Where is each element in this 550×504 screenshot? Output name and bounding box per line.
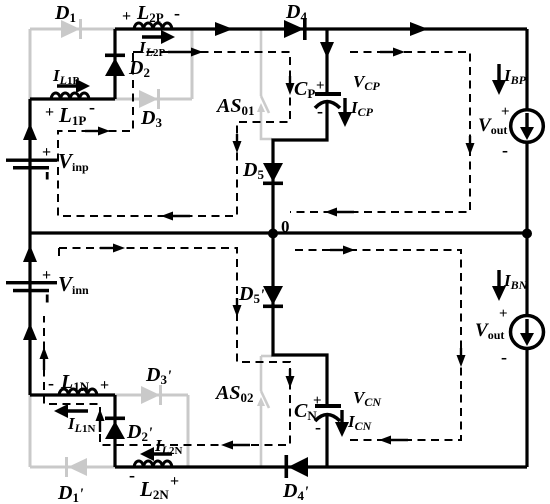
svg-text:D4: D4 bbox=[285, 1, 307, 24]
diode D2' bbox=[105, 417, 125, 440]
wire: D3' gray branch bbox=[115, 394, 188, 397]
svg-text:L2N: L2N bbox=[139, 477, 169, 502]
diode D1' (gray) bbox=[65, 457, 87, 477]
diode D4 bbox=[284, 18, 307, 40]
wire: right rail top bbox=[525, 29, 528, 233]
diode D4' bbox=[285, 455, 309, 478]
diode D5 bbox=[263, 163, 283, 185]
svg-text:Vinn: Vinn bbox=[58, 272, 89, 297]
dash arrow right (y248) bbox=[100, 243, 125, 252]
dash arrow down (x290 bottom) bbox=[285, 369, 294, 388]
svg-text:-: - bbox=[174, 3, 180, 23]
diode D2 bbox=[105, 54, 125, 77]
dash arrow down (x237 bottom) bbox=[232, 298, 241, 317]
node junction dot right bbox=[522, 229, 532, 239]
inductor L2N bbox=[134, 461, 172, 467]
svg-text:D3: D3 bbox=[140, 107, 162, 130]
svg-text:+: + bbox=[122, 8, 131, 25]
svg-text:L1N: L1N bbox=[60, 371, 90, 394]
wire: L1P branch bbox=[30, 97, 115, 100]
wire: left black rail (Vinn) bbox=[28, 232, 31, 395]
inductor L1N bbox=[59, 389, 97, 395]
wire: top-left gray rail (D1 branch) bbox=[30, 28, 115, 31]
svg-text:ICP: ICP bbox=[350, 98, 374, 119]
current source arrow (bottom) bbox=[525, 319, 528, 334]
wire: bottom main rail (black) bbox=[115, 465, 527, 468]
svg-text:-: - bbox=[129, 465, 135, 485]
svg-text:0: 0 bbox=[281, 217, 290, 236]
capacitor CN curved plate bbox=[315, 415, 340, 422]
inductor L2P bbox=[134, 23, 172, 29]
switch AS01 arrowhead (gray) bbox=[257, 103, 265, 112]
svg-text:IL1N: IL1N bbox=[67, 414, 95, 435]
diode D1 (gray) bbox=[61, 19, 82, 39]
dashed loop: top-right output loop bbox=[290, 52, 470, 212]
svg-text:-: - bbox=[501, 347, 507, 367]
svg-text:+: + bbox=[42, 267, 51, 284]
svg-text:+: + bbox=[313, 393, 322, 409]
svg-text:ICN: ICN bbox=[347, 412, 373, 433]
wire: left black rail (Vinp) bbox=[28, 99, 31, 232]
dash arrow up (x100) bbox=[95, 409, 104, 432]
diode D3 (gray) bbox=[139, 89, 160, 109]
svg-text:IL2N: IL2N bbox=[154, 436, 182, 457]
svg-text:D1': D1' bbox=[57, 482, 84, 504]
svg-text:VCP: VCP bbox=[353, 72, 380, 93]
wire: left gray rail segment top bbox=[29, 29, 32, 99]
solid arrow IL2P bbox=[142, 35, 163, 38]
svg-text:D2: D2 bbox=[128, 57, 150, 80]
dash arrow right (y131) bbox=[85, 126, 110, 135]
solid arrow IBP bbox=[497, 64, 500, 82]
dash arrow left (y440) bbox=[379, 435, 408, 444]
svg-text:-: - bbox=[502, 140, 508, 160]
dash arrow down (x290) bbox=[285, 76, 294, 95]
dash arrow left (y216) bbox=[161, 211, 190, 220]
wire: D2' vertical branch bbox=[113, 395, 116, 467]
wire: CN bottom to bottom rail bbox=[325, 413, 328, 467]
svg-text:D2': D2' bbox=[126, 421, 153, 444]
dash arrow left (y212) bbox=[325, 207, 354, 216]
capacitor CN plate bbox=[315, 404, 341, 408]
solid arrow ICP bbox=[343, 98, 346, 114]
dash arrow right (IL2P loop, y52) bbox=[168, 47, 203, 56]
dash arrow down (x470) bbox=[465, 136, 474, 155]
switch AS02 arrowhead (gray) bbox=[257, 397, 265, 406]
svg-text:Vout: Vout bbox=[475, 320, 504, 342]
dash arrow up (x44) bbox=[39, 347, 48, 370]
diode D5' bbox=[263, 286, 283, 308]
svg-text:L2P: L2P bbox=[136, 2, 164, 25]
current source arrow (top) bbox=[525, 113, 528, 128]
dash arrow down (x237 top loop) bbox=[232, 134, 241, 153]
wire: gray vertical from D3' to bottom wire bbox=[187, 395, 190, 467]
svg-text:AS01: AS01 bbox=[215, 95, 254, 118]
wire: D3 gray branch bbox=[115, 98, 192, 101]
arrow up on left rail (top half) bbox=[23, 123, 37, 140]
dash arrow down (x461) bbox=[456, 348, 465, 367]
svg-text:-: - bbox=[48, 373, 54, 393]
wire: top main rail bbox=[115, 27, 527, 30]
wire: left gray rail segment bottom bbox=[29, 395, 32, 467]
svg-text:L1P: L1P bbox=[58, 103, 86, 128]
battery Vinn plates bbox=[6, 281, 57, 303]
arrow down into CP bbox=[320, 42, 334, 58]
arrow on top wire (right of D4) bbox=[410, 22, 428, 36]
arrow up on left rail (below Vinn) bbox=[23, 323, 37, 340]
solid arrow IL1P bbox=[57, 84, 78, 87]
current source circle (bottom Vout) bbox=[511, 316, 544, 349]
svg-text:D5: D5 bbox=[242, 159, 264, 182]
svg-text:+: + bbox=[501, 104, 510, 120]
svg-text:D1: D1 bbox=[54, 2, 76, 25]
battery Vinp plates bbox=[6, 159, 57, 180]
wire: bottom-left gray rail (D1' branch) bbox=[30, 466, 115, 469]
svg-text:D3': D3' bbox=[145, 364, 172, 387]
svg-text:-: - bbox=[317, 101, 323, 121]
svg-text:+: + bbox=[316, 78, 325, 94]
svg-text:D5': D5' bbox=[238, 283, 265, 306]
dashed loop: top-left input loop bbox=[58, 52, 290, 216]
arrow on top wire (left of D4) bbox=[215, 22, 233, 36]
wire: CP top drop from top rail bbox=[325, 29, 328, 95]
svg-text:CP: CP bbox=[294, 78, 315, 101]
svg-text:-: - bbox=[89, 97, 95, 117]
current source circle (top Vout) bbox=[511, 110, 544, 143]
switch AS02 (gray) bbox=[261, 356, 272, 467]
dash arrow left (y445) bbox=[221, 440, 250, 449]
capacitor CP curved plate bbox=[315, 102, 340, 109]
svg-text:D4': D4' bbox=[282, 480, 309, 503]
dash arrow right (y52 right loop) bbox=[380, 47, 405, 56]
svg-text:AS02: AS02 bbox=[214, 382, 253, 405]
capacitor CP plate bbox=[315, 92, 341, 96]
wire: L1N branch bbox=[30, 393, 115, 396]
solid arrow IBN bbox=[497, 270, 500, 288]
svg-text:-: - bbox=[315, 417, 321, 437]
svg-text:IBN: IBN bbox=[503, 271, 529, 292]
svg-text:+: + bbox=[170, 473, 179, 490]
solid arrow IL2N bbox=[152, 452, 172, 455]
svg-text:+: + bbox=[100, 377, 109, 394]
dashed loop: bottom-right output loop bbox=[295, 250, 461, 440]
wire: CP bottom to D5 branch bbox=[273, 101, 327, 232]
dash arrow right (y250 bottom) bbox=[330, 245, 355, 254]
arrow up on left rail (above Vinn) bbox=[23, 245, 37, 262]
svg-text:+: + bbox=[499, 306, 508, 322]
wire: node0 to D5' to CN bbox=[273, 232, 327, 404]
svg-text:VCN: VCN bbox=[353, 388, 382, 409]
svg-text:Vinp: Vinp bbox=[58, 149, 89, 174]
diode D3' (gray) bbox=[141, 385, 162, 405]
wire: middle rail (node 0) bbox=[30, 231, 527, 234]
wire: right rail bottom bbox=[525, 233, 528, 467]
wire: D2 vertical branch bbox=[113, 29, 116, 99]
svg-text:+: + bbox=[45, 104, 54, 121]
switch AS01 (gray) bbox=[261, 30, 272, 139]
wire: gray vertical riser from D3 to top wire bbox=[191, 29, 194, 99]
solid arrow ICN bbox=[340, 410, 343, 424]
dashed loop: bottom-left input loop bbox=[44, 248, 290, 445]
svg-text:IL1P: IL1P bbox=[52, 66, 79, 87]
inductor L1P bbox=[51, 93, 89, 99]
svg-text:+: + bbox=[42, 144, 51, 161]
svg-text:IBP: IBP bbox=[503, 66, 527, 87]
solid arrow IL1N bbox=[66, 409, 88, 412]
node 0 junction dot bbox=[268, 229, 278, 239]
